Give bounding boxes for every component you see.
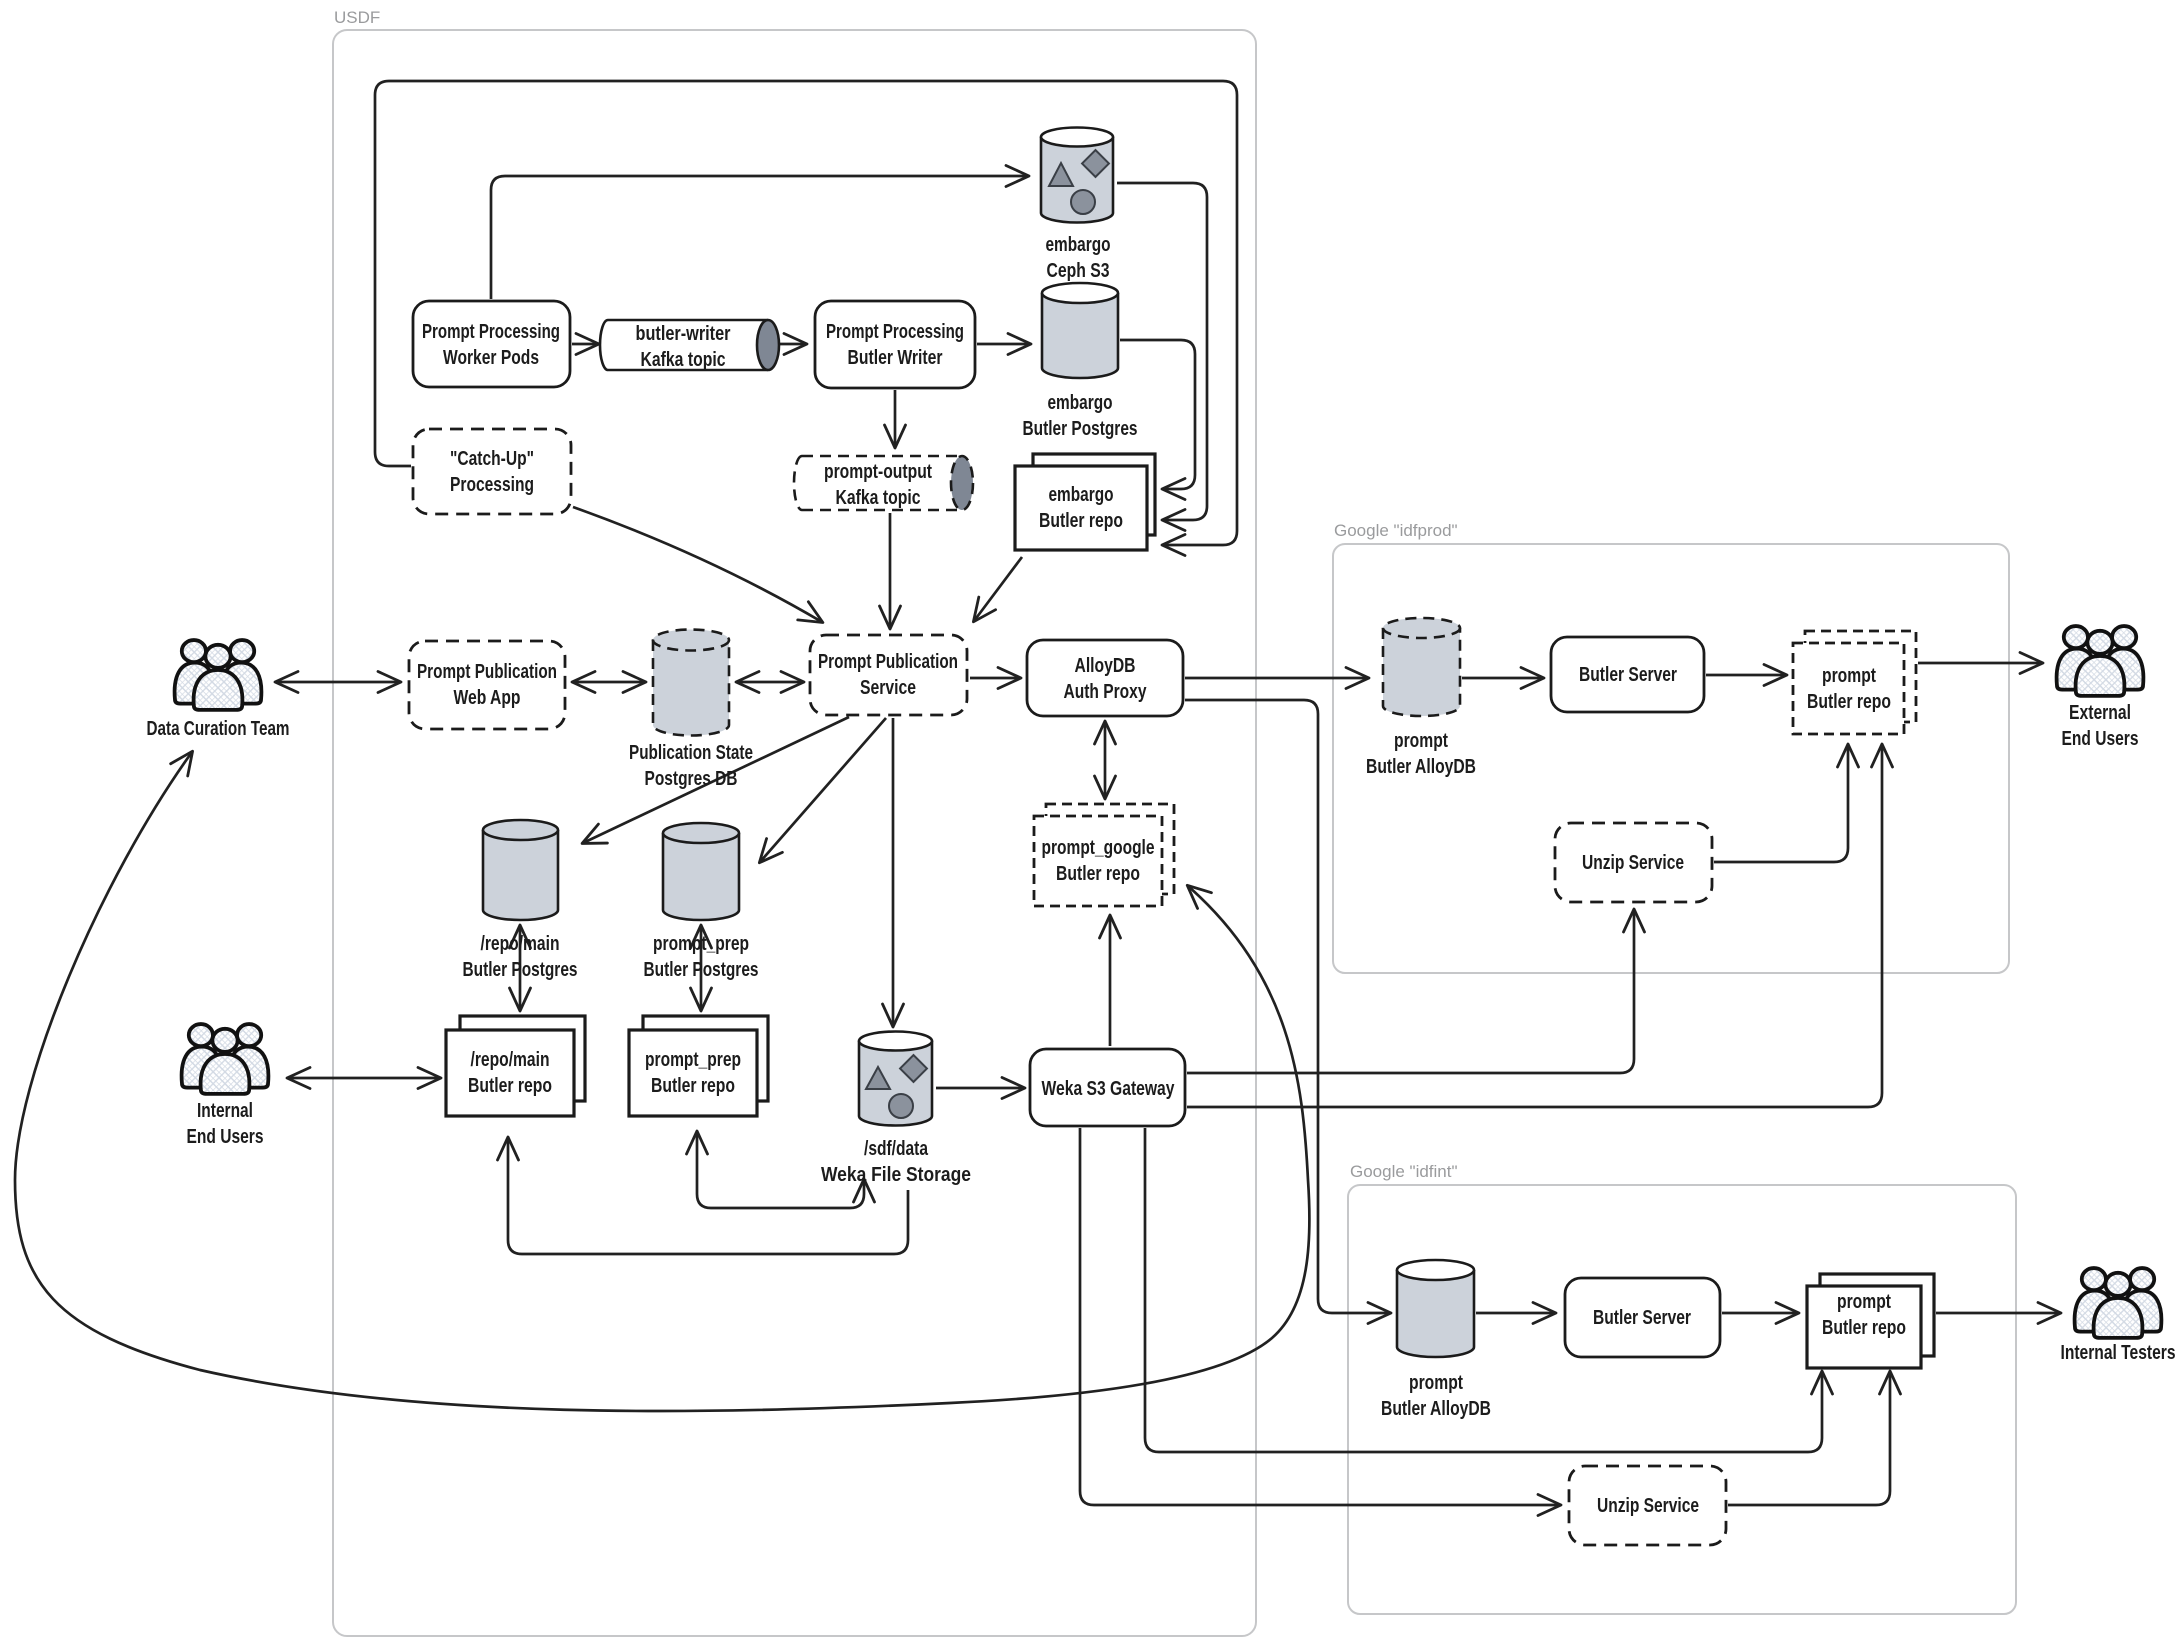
- svg-text:Auth Proxy: Auth Proxy: [1064, 681, 1148, 703]
- svg-text:AlloyDB: AlloyDB: [1075, 655, 1136, 677]
- svg-text:Butler Postgres: Butler Postgres: [644, 959, 759, 981]
- svg-text:prompt_prep: prompt_prep: [645, 1049, 741, 1071]
- svg-text:embargo: embargo: [1048, 392, 1113, 414]
- svg-text:prompt: prompt: [1822, 665, 1876, 687]
- svg-text:Kafka topic: Kafka topic: [641, 349, 726, 371]
- svg-text:Butler Postgres: Butler Postgres: [463, 959, 578, 981]
- svg-text:Service: Service: [860, 677, 916, 699]
- svg-text:Butler Server: Butler Server: [1579, 664, 1677, 686]
- svg-text:Internal Testers: Internal Testers: [2061, 1342, 2176, 1364]
- svg-text:Unzip Service: Unzip Service: [1582, 852, 1684, 874]
- svg-text:Internal: Internal: [197, 1100, 253, 1122]
- svg-text:Processing: Processing: [450, 474, 534, 496]
- svg-text:"Catch-Up": "Catch-Up": [450, 448, 534, 470]
- svg-text:prompt_google: prompt_google: [1042, 837, 1155, 859]
- svg-text:Postgres DB: Postgres DB: [645, 768, 738, 790]
- svg-text:/sdf/data: /sdf/data: [864, 1138, 929, 1160]
- svg-text:End Users: End Users: [2062, 728, 2139, 750]
- svg-text:Weka S3 Gateway: Weka S3 Gateway: [1042, 1078, 1176, 1100]
- svg-text:Worker Pods: Worker Pods: [443, 347, 539, 369]
- svg-text:End Users: End Users: [187, 1126, 264, 1148]
- svg-text:Butler AlloyDB: Butler AlloyDB: [1381, 1398, 1491, 1420]
- svg-text:Butler repo: Butler repo: [651, 1075, 735, 1097]
- svg-text:Google "idfint": Google "idfint": [1350, 1162, 1458, 1181]
- svg-text:prompt_prep: prompt_prep: [653, 933, 749, 955]
- svg-text:prompt-output: prompt-output: [824, 461, 932, 483]
- svg-text:prompt: prompt: [1837, 1291, 1891, 1313]
- svg-text:Butler repo: Butler repo: [1056, 863, 1140, 885]
- svg-text:embargo: embargo: [1049, 484, 1114, 506]
- svg-text:prompt: prompt: [1409, 1372, 1463, 1394]
- svg-text:External: External: [2069, 702, 2131, 724]
- svg-text:Butler repo: Butler repo: [468, 1075, 552, 1097]
- svg-text:Web App: Web App: [454, 687, 521, 709]
- svg-text:Butler repo: Butler repo: [1039, 510, 1123, 532]
- svg-text:embargo: embargo: [1046, 234, 1111, 256]
- svg-text:Butler Writer: Butler Writer: [848, 347, 943, 369]
- svg-text:prompt: prompt: [1394, 730, 1448, 752]
- svg-text:Butler AlloyDB: Butler AlloyDB: [1366, 756, 1476, 778]
- svg-text:Unzip Service: Unzip Service: [1597, 1495, 1699, 1517]
- svg-text:Butler Postgres: Butler Postgres: [1023, 418, 1138, 440]
- svg-text:butler-writer: butler-writer: [636, 323, 731, 345]
- svg-text:Data Curation Team: Data Curation Team: [147, 718, 290, 740]
- svg-text:Butler repo: Butler repo: [1807, 691, 1891, 713]
- svg-text:Prompt Publication: Prompt Publication: [417, 661, 557, 683]
- svg-text:USDF: USDF: [334, 8, 380, 27]
- svg-text:Kafka topic: Kafka topic: [836, 487, 921, 509]
- svg-text:Ceph S3: Ceph S3: [1047, 260, 1110, 282]
- svg-text:Prompt Publication: Prompt Publication: [818, 651, 958, 673]
- svg-text:Butler repo: Butler repo: [1822, 1317, 1906, 1339]
- svg-text:Publication State: Publication State: [629, 742, 753, 764]
- svg-text:Butler Server: Butler Server: [1593, 1307, 1691, 1329]
- svg-text:Prompt Processing: Prompt Processing: [826, 321, 964, 343]
- svg-text:/repo/main: /repo/main: [471, 1049, 550, 1071]
- svg-text:Prompt Processing: Prompt Processing: [422, 321, 560, 343]
- svg-text:/repo/main: /repo/main: [481, 933, 560, 955]
- svg-text:Weka File Storage: Weka File Storage: [821, 1164, 971, 1186]
- svg-text:Google "idfprod": Google "idfprod": [1334, 521, 1458, 540]
